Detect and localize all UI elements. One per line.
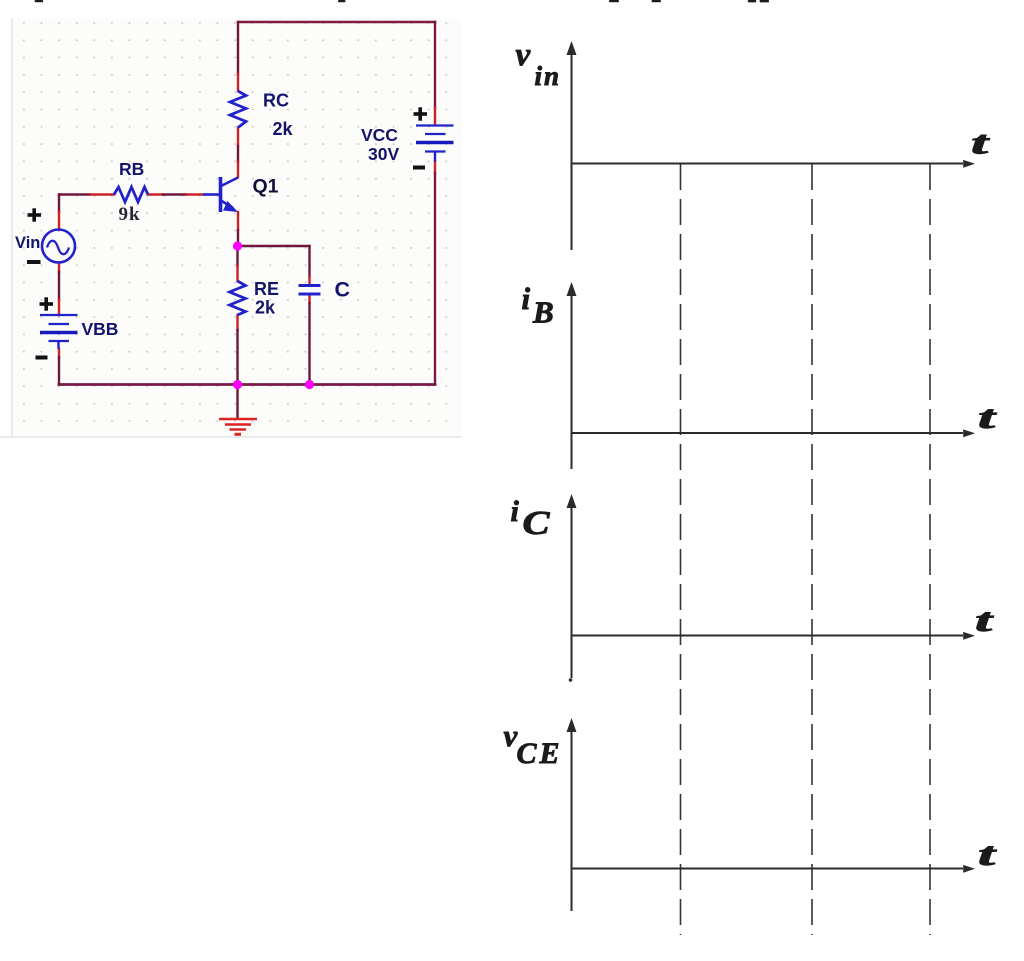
svg-text:C: C bbox=[335, 278, 351, 302]
svg-text:t: t bbox=[978, 400, 997, 436]
svg-text:CE: CE bbox=[517, 737, 563, 770]
svg-text:RB: RB bbox=[119, 159, 144, 179]
svg-text:RE: RE bbox=[254, 279, 279, 299]
svg-text:t: t bbox=[978, 837, 997, 873]
svg-text:B: B bbox=[532, 295, 554, 330]
svg-text:30V: 30V bbox=[368, 144, 399, 164]
svg-text:t: t bbox=[975, 603, 994, 639]
svg-text:9k: 9k bbox=[119, 204, 141, 225]
svg-text:Q1: Q1 bbox=[253, 176, 279, 198]
svg-text:i: i bbox=[511, 495, 520, 528]
svg-text:VCC: VCC bbox=[361, 125, 398, 145]
svg-text:in: in bbox=[535, 61, 562, 91]
svg-text:2k: 2k bbox=[273, 119, 294, 139]
svg-text:v: v bbox=[516, 37, 531, 73]
svg-text:C: C bbox=[523, 505, 550, 542]
svg-text:VBB: VBB bbox=[82, 319, 119, 339]
svg-text:t: t bbox=[971, 126, 990, 162]
svg-text:2k: 2k bbox=[255, 298, 276, 318]
svg-text:RC: RC bbox=[263, 91, 289, 111]
svg-text:Vin: Vin bbox=[15, 234, 40, 252]
svg-text:i: i bbox=[522, 281, 531, 316]
